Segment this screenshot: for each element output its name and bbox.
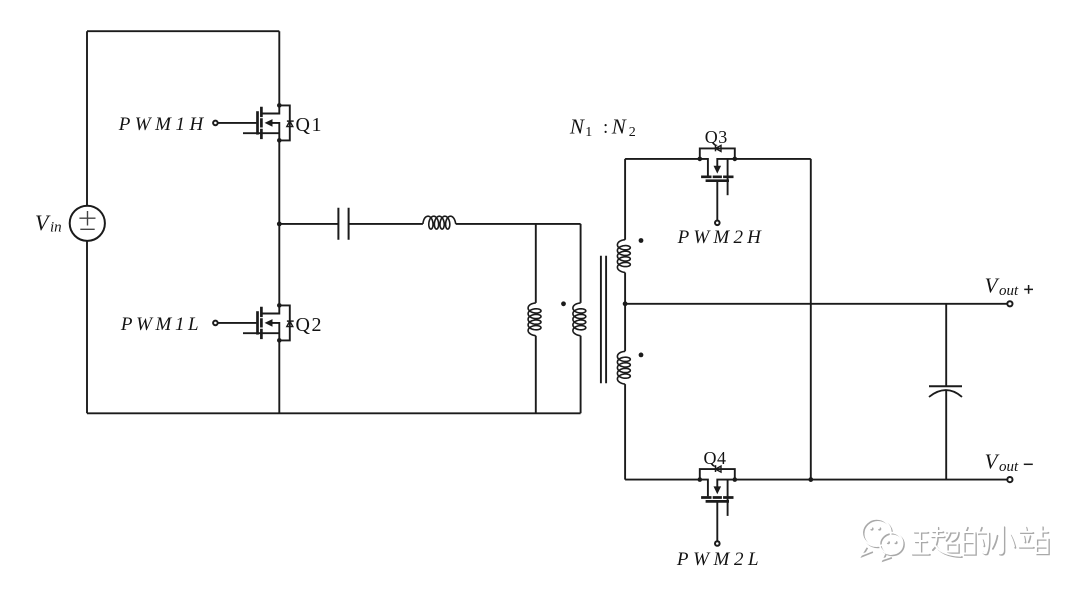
svg-text:N: N — [569, 115, 585, 139]
svg-text:V: V — [985, 274, 1000, 298]
svg-text:N: N — [611, 115, 627, 139]
svg-text:PWM2L: PWM2L — [676, 549, 763, 570]
svg-text:V: V — [985, 449, 1000, 473]
svg-text:PWM1L: PWM1L — [120, 314, 202, 335]
svg-text:Q3: Q3 — [705, 127, 728, 147]
svg-text:2: 2 — [629, 125, 636, 140]
svg-text:Q4: Q4 — [704, 448, 727, 468]
svg-text:in: in — [50, 220, 62, 236]
svg-text:Q2: Q2 — [296, 314, 323, 336]
svg-text::: : — [603, 117, 608, 138]
svg-text:out: out — [999, 459, 1019, 475]
svg-text:1: 1 — [585, 125, 592, 140]
svg-text:PWM1H: PWM1H — [118, 114, 208, 135]
svg-text:PWM2H: PWM2H — [677, 227, 765, 248]
svg-text:out: out — [999, 283, 1019, 299]
svg-text:Q1: Q1 — [296, 114, 323, 136]
